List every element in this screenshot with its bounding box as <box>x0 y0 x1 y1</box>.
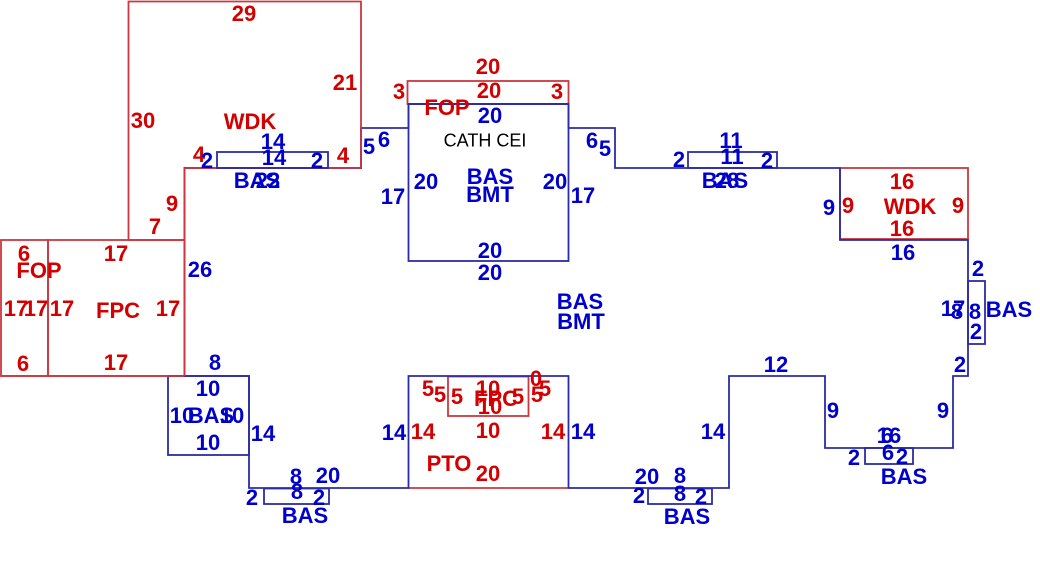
red west shared wall overlay <box>184 168 186 376</box>
svg-text:20: 20 <box>476 461 500 486</box>
svg-text:22: 22 <box>256 168 280 193</box>
red FOP porch strip (north) <box>408 81 569 104</box>
svg-text:5: 5 <box>531 382 543 407</box>
svg-text:14: 14 <box>262 145 287 170</box>
svg-text:BMT: BMT <box>557 309 605 334</box>
svg-text:BAS: BAS <box>282 503 328 528</box>
svg-text:2: 2 <box>633 483 645 508</box>
svg-text:FOP: FOP <box>424 95 469 120</box>
svg-text:2: 2 <box>246 485 258 510</box>
svg-text:9: 9 <box>842 193 854 218</box>
red FOP/FPC bottom edge overlay <box>1 375 185 377</box>
svg-text:14: 14 <box>411 419 436 444</box>
svg-text:FPC: FPC <box>96 298 140 323</box>
svg-text:9: 9 <box>823 195 835 220</box>
svg-text:17: 17 <box>381 184 405 209</box>
svg-text:16: 16 <box>891 240 915 265</box>
svg-text:8: 8 <box>951 299 963 324</box>
svg-text:8: 8 <box>209 350 221 375</box>
blue BAS 11x2 strip box (north-east) <box>688 152 777 168</box>
svg-text:CATH CEI: CATH CEI <box>444 131 527 151</box>
svg-text:16: 16 <box>890 216 914 241</box>
svg-text:21: 21 <box>333 70 357 95</box>
red FPC box (south-center) <box>448 377 529 417</box>
svg-text:17: 17 <box>104 241 128 266</box>
svg-text:20: 20 <box>478 103 502 128</box>
svg-text:3: 3 <box>551 79 563 104</box>
svg-text:20: 20 <box>478 260 502 285</box>
svg-text:12: 12 <box>764 352 788 377</box>
svg-text:20: 20 <box>543 169 567 194</box>
svg-text:14: 14 <box>251 421 276 446</box>
red WDK deck outline (north-west) <box>129 2 362 241</box>
svg-text:4: 4 <box>337 143 350 168</box>
svg-text:14: 14 <box>571 419 596 444</box>
svg-text:8: 8 <box>674 481 686 506</box>
svg-text:BAS: BAS <box>881 464 927 489</box>
svg-text:20: 20 <box>476 54 500 79</box>
svg-text:30: 30 <box>131 108 155 133</box>
svg-text:14: 14 <box>701 419 726 444</box>
svg-text:20: 20 <box>477 78 501 103</box>
svg-text:2: 2 <box>970 319 982 344</box>
svg-text:17: 17 <box>50 296 74 321</box>
svg-text:10: 10 <box>196 376 220 401</box>
blue BAS 10x8 box (west) <box>168 376 249 455</box>
svg-text:6: 6 <box>17 351 29 376</box>
svg-text:BAS: BAS <box>986 297 1032 322</box>
svg-text:7: 7 <box>149 214 161 239</box>
blue BAS 6x2 bump-out box (south-east) <box>865 448 913 464</box>
svg-text:17: 17 <box>104 350 128 375</box>
blue BAS 8x2 bump-out box (south-center) <box>648 489 712 505</box>
svg-text:10: 10 <box>220 403 244 428</box>
red WDK bottom edge overlay <box>185 167 362 169</box>
svg-text:FOP: FOP <box>16 258 61 283</box>
svg-text:28: 28 <box>715 168 739 193</box>
svg-text:17: 17 <box>156 296 180 321</box>
svg-text:5: 5 <box>363 134 375 159</box>
svg-text:17: 17 <box>571 183 595 208</box>
svg-text:6: 6 <box>586 128 598 153</box>
svg-text:9: 9 <box>937 398 949 423</box>
svg-text:10: 10 <box>476 418 500 443</box>
svg-text:3: 3 <box>393 79 405 104</box>
svg-text:2: 2 <box>311 148 323 173</box>
svg-text:14: 14 <box>541 419 566 444</box>
svg-text:10: 10 <box>478 394 502 419</box>
svg-text:6: 6 <box>882 440 894 465</box>
blue CATH CEI room box <box>409 104 569 261</box>
blue BAS 8x2 bump-out box (south-west) <box>264 489 329 505</box>
blue BAS/BMT main house outline <box>185 104 969 488</box>
svg-text:6: 6 <box>378 127 390 152</box>
svg-text:BMT: BMT <box>466 182 514 207</box>
svg-text:5: 5 <box>434 382 446 407</box>
svg-text:29: 29 <box>232 1 256 26</box>
svg-text:5: 5 <box>451 384 463 409</box>
svg-text:2: 2 <box>954 352 966 377</box>
blue BAS 14x2 strip box (north-west) <box>217 152 328 168</box>
red WDK deck box (east) <box>840 168 968 239</box>
svg-text:BAS: BAS <box>664 504 710 529</box>
svg-text:14: 14 <box>382 420 407 445</box>
svg-text:16: 16 <box>890 169 914 194</box>
svg-text:5: 5 <box>512 384 524 409</box>
svg-text:PTO: PTO <box>427 451 472 476</box>
blue BAS 2x8 bump-out box (east) <box>968 281 985 344</box>
svg-text:10: 10 <box>196 430 220 455</box>
red PTO patio bottom edge <box>409 487 569 489</box>
svg-text:8: 8 <box>291 479 303 504</box>
svg-text:5: 5 <box>599 136 611 161</box>
svg-text:5: 5 <box>422 376 434 401</box>
svg-text:2: 2 <box>761 148 773 173</box>
svg-text:2: 2 <box>673 147 685 172</box>
svg-text:9: 9 <box>952 193 964 218</box>
svg-text:2: 2 <box>848 445 860 470</box>
svg-text:11: 11 <box>720 144 743 169</box>
svg-text:9: 9 <box>827 398 839 423</box>
svg-text:26: 26 <box>188 257 212 282</box>
red FOP porch box (west) <box>1 240 48 376</box>
red FPC carport box (west) <box>48 240 185 376</box>
svg-text:2: 2 <box>201 148 213 173</box>
svg-text:20: 20 <box>414 169 438 194</box>
svg-text:2: 2 <box>972 256 984 281</box>
red WDK right edge overlay <box>360 127 362 168</box>
svg-text:17: 17 <box>24 296 48 321</box>
svg-text:9: 9 <box>166 191 178 216</box>
